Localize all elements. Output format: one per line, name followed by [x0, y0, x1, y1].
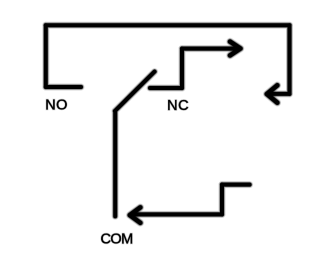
svg-text:NO: NO: [45, 98, 68, 114]
wire halo inner: [46, 25, 290, 216]
wire core: [46, 25, 290, 216]
svg-text:COM: COM: [101, 232, 133, 248]
svg-text:NC: NC: [167, 98, 189, 114]
wire halo outer: [46, 25, 290, 216]
